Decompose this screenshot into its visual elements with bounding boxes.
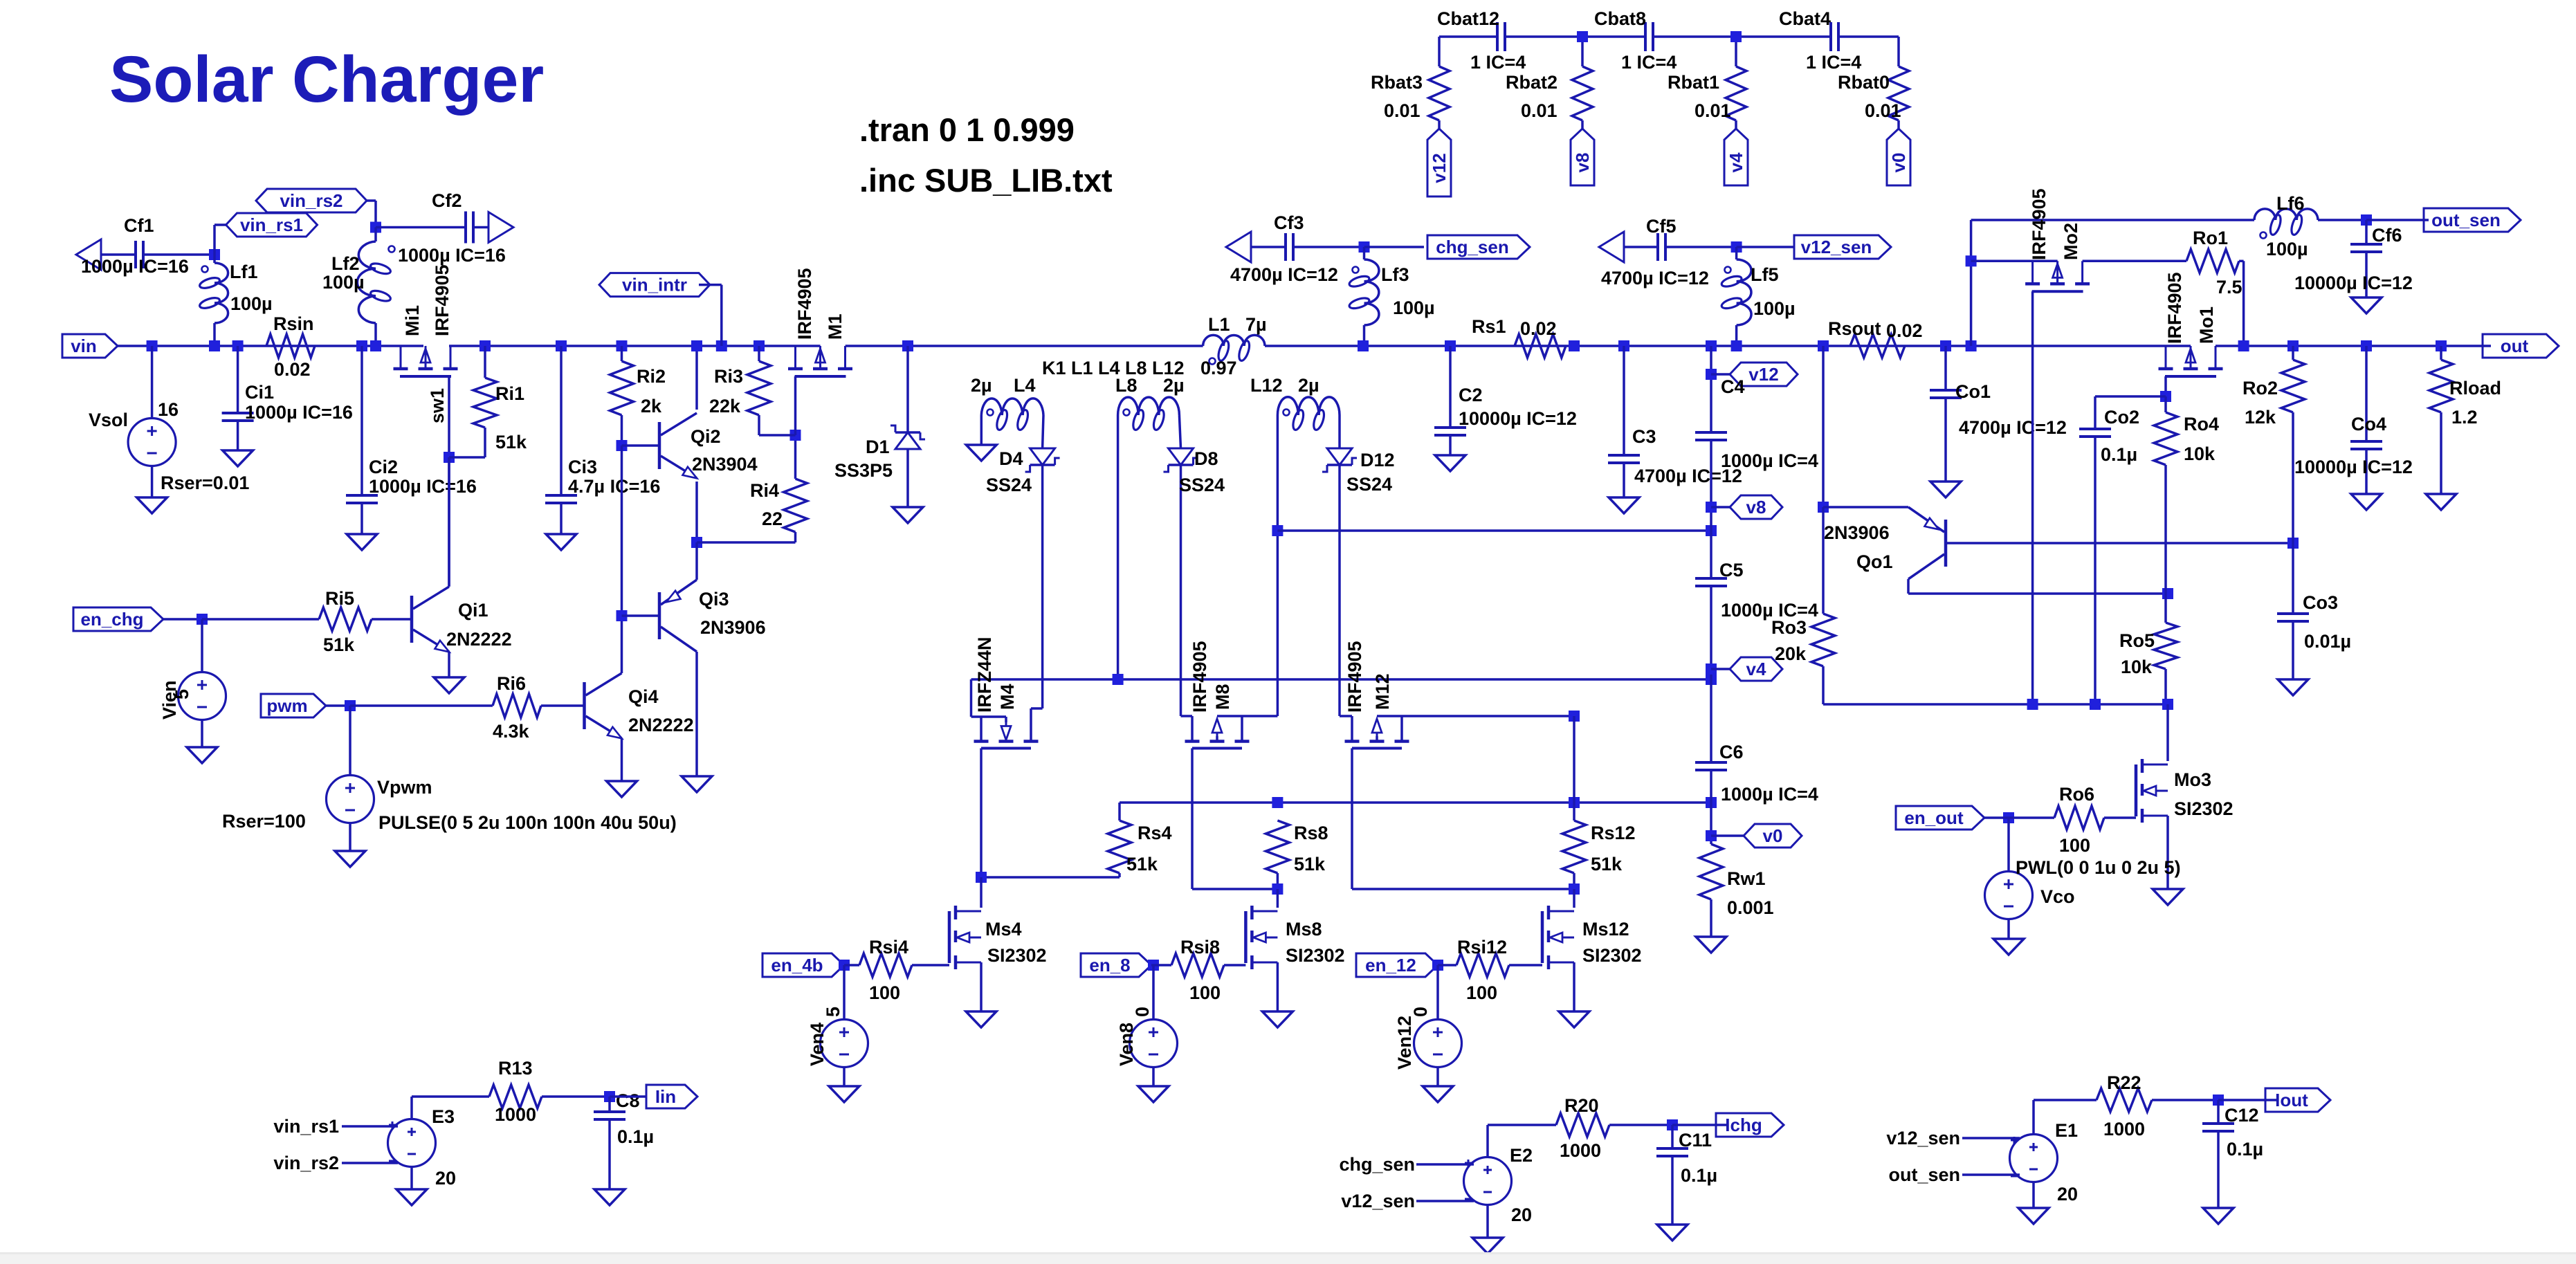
svg-text:Lf5: Lf5 xyxy=(1751,264,1779,285)
svg-text:C11: C11 xyxy=(1679,1130,1712,1151)
svg-text:Vco: Vco xyxy=(2040,886,2075,907)
svg-text:2k: 2k xyxy=(641,396,662,416)
svg-text:SI2302: SI2302 xyxy=(1582,945,1642,966)
svg-text:1000µ IC=16: 1000µ IC=16 xyxy=(81,256,189,277)
svg-text:7.5: 7.5 xyxy=(2216,277,2242,297)
svg-text:20: 20 xyxy=(2057,1184,2078,1205)
svg-text:2µ: 2µ xyxy=(1163,375,1185,396)
svg-text:.tran 0 1 0.999: .tran 0 1 0.999 xyxy=(859,111,1075,148)
svg-text:16: 16 xyxy=(158,399,179,420)
svg-text:Cf2: Cf2 xyxy=(432,190,462,211)
svg-text:PULSE(0 5 2u 100n 100n 40u 50u: PULSE(0 5 2u 100n 100n 40u 50u) xyxy=(378,812,677,833)
svg-text:v0: v0 xyxy=(1763,825,1783,846)
svg-text:v12_sen: v12_sen xyxy=(1801,237,1872,257)
svg-text:Cf1: Cf1 xyxy=(124,215,154,236)
svg-text:Rbat1: Rbat1 xyxy=(1668,72,1719,93)
svg-text:Rs12: Rs12 xyxy=(1591,823,1636,843)
svg-text:SI2302: SI2302 xyxy=(2174,798,2234,819)
svg-text:D1: D1 xyxy=(866,437,890,457)
svg-text:M4: M4 xyxy=(997,684,1018,710)
svg-text:Ro3: Ro3 xyxy=(1771,617,1807,638)
svg-text:Lf3: Lf3 xyxy=(1381,264,1409,285)
svg-text:C4: C4 xyxy=(1721,376,1745,397)
svg-text:v12_sen: v12_sen xyxy=(1886,1128,1960,1148)
svg-text:C5: C5 xyxy=(1719,560,1744,580)
svg-text:100: 100 xyxy=(869,982,900,1003)
svg-text:vin: vin xyxy=(71,336,97,356)
svg-text:2N3906: 2N3906 xyxy=(700,617,766,638)
svg-text:C8: C8 xyxy=(616,1090,640,1111)
svg-text:L8: L8 xyxy=(1115,375,1138,396)
svg-text:SS24: SS24 xyxy=(1346,474,1392,495)
svg-text:R20: R20 xyxy=(1564,1095,1599,1116)
svg-text:22: 22 xyxy=(762,509,783,529)
svg-text:chg_sen: chg_sen xyxy=(1339,1154,1415,1175)
svg-text:Ven8: Ven8 xyxy=(1116,1023,1137,1066)
svg-text:Ven12: Ven12 xyxy=(1394,1016,1415,1070)
svg-text:Ms8: Ms8 xyxy=(1286,919,1322,940)
svg-text:Ichg: Ichg xyxy=(1725,1115,1762,1135)
svg-text:0.02: 0.02 xyxy=(274,359,311,380)
svg-text:10000µ IC=12: 10000µ IC=12 xyxy=(1459,408,1577,429)
svg-text:7µ: 7µ xyxy=(1245,314,1267,335)
svg-text:51k: 51k xyxy=(323,634,355,655)
svg-text:Co3: Co3 xyxy=(2303,592,2338,613)
svg-text:out: out xyxy=(2501,336,2529,356)
svg-text:SS24: SS24 xyxy=(1179,475,1225,495)
svg-text:0: 0 xyxy=(1132,1007,1153,1017)
svg-text:SS3P5: SS3P5 xyxy=(834,460,893,481)
svg-text:E3: E3 xyxy=(432,1106,455,1127)
svg-text:v8: v8 xyxy=(1572,153,1593,173)
svg-text:vin_rs2: vin_rs2 xyxy=(280,190,342,211)
svg-text:vin_rs1: vin_rs1 xyxy=(240,214,303,235)
svg-text:D12: D12 xyxy=(1360,450,1395,470)
svg-text:Lf6: Lf6 xyxy=(2276,193,2305,214)
svg-text:SI2302: SI2302 xyxy=(1286,945,1345,966)
svg-text:0.02: 0.02 xyxy=(1520,318,1557,339)
svg-text:100µ: 100µ xyxy=(1393,297,1435,318)
svg-text:Rw1: Rw1 xyxy=(1727,868,1766,889)
svg-text:100: 100 xyxy=(2059,835,2090,856)
svg-text:v12: v12 xyxy=(1748,364,1778,385)
svg-text:20k: 20k xyxy=(1775,643,1807,664)
svg-text:C3: C3 xyxy=(1632,426,1656,447)
svg-text:M8: M8 xyxy=(1212,684,1233,710)
svg-text:51k: 51k xyxy=(1294,854,1326,874)
svg-text:L1: L1 xyxy=(1208,314,1230,335)
svg-text:100µ: 100µ xyxy=(1753,298,1796,319)
svg-text:Mi1: Mi1 xyxy=(402,305,423,336)
svg-text:Qi3: Qi3 xyxy=(699,589,729,610)
svg-text:M12: M12 xyxy=(1372,673,1393,710)
svg-text:Iin: Iin xyxy=(655,1086,676,1107)
svg-text:51k: 51k xyxy=(495,432,527,452)
svg-text:Ri2: Ri2 xyxy=(637,366,666,387)
svg-text:12k: 12k xyxy=(2245,407,2276,428)
svg-text:0.97: 0.97 xyxy=(1200,358,1237,378)
svg-text:1000µ IC=4: 1000µ IC=4 xyxy=(1721,450,1818,471)
svg-text:100µ: 100µ xyxy=(2266,239,2308,259)
svg-text:out_sen: out_sen xyxy=(1888,1164,1960,1185)
svg-text:1 IC=4: 1 IC=4 xyxy=(1806,52,1861,73)
svg-text:Ro5: Ro5 xyxy=(2119,630,2155,651)
svg-text:Ci1: Ci1 xyxy=(245,382,274,403)
svg-text:Vpwm: Vpwm xyxy=(377,777,432,798)
svg-text:Rs8: Rs8 xyxy=(1294,823,1328,843)
svg-text:Qo1: Qo1 xyxy=(1856,551,1893,572)
svg-text:Vsol: Vsol xyxy=(89,410,128,430)
svg-text:Iout: Iout xyxy=(2275,1090,2308,1110)
svg-text:v12: v12 xyxy=(1429,153,1450,183)
svg-text:Rsi12: Rsi12 xyxy=(1457,937,1507,958)
svg-text:Cbat4: Cbat4 xyxy=(1779,8,1831,29)
svg-text:Cf5: Cf5 xyxy=(1646,216,1677,237)
svg-text:IRF4905: IRF4905 xyxy=(2164,272,2185,344)
svg-text:Co1: Co1 xyxy=(1955,381,1991,402)
svg-text:Qi1: Qi1 xyxy=(458,600,488,621)
svg-text:Ri5: Ri5 xyxy=(325,588,354,609)
svg-text:en_12: en_12 xyxy=(1365,955,1416,976)
svg-text:.inc SUB_LIB.txt: .inc SUB_LIB.txt xyxy=(859,162,1113,199)
svg-text:Co2: Co2 xyxy=(2104,407,2139,428)
svg-text:E2: E2 xyxy=(1510,1145,1533,1166)
svg-text:1000: 1000 xyxy=(495,1104,536,1125)
svg-text:v8: v8 xyxy=(1746,497,1766,517)
svg-text:Co4: Co4 xyxy=(2351,414,2386,434)
svg-text:0.02: 0.02 xyxy=(1886,320,1923,341)
svg-text:M1: M1 xyxy=(825,313,846,340)
svg-text:R13: R13 xyxy=(498,1058,533,1079)
svg-text:51k: 51k xyxy=(1126,854,1158,874)
svg-text:Rbat3: Rbat3 xyxy=(1371,72,1423,93)
svg-text:0.01: 0.01 xyxy=(1865,100,1901,121)
svg-text:Cf6: Cf6 xyxy=(2372,225,2402,246)
svg-text:Mo3: Mo3 xyxy=(2174,769,2211,790)
svg-text:0.01: 0.01 xyxy=(1384,100,1421,121)
svg-text:Ci3: Ci3 xyxy=(568,457,597,477)
svg-text:1000µ IC=16: 1000µ IC=16 xyxy=(398,245,506,266)
svg-text:0.1µ: 0.1µ xyxy=(1681,1165,1717,1186)
svg-text:E1: E1 xyxy=(2055,1120,2078,1141)
svg-text:1000µ IC=16: 1000µ IC=16 xyxy=(369,476,477,497)
svg-text:5: 5 xyxy=(172,689,192,699)
svg-text:sw1: sw1 xyxy=(427,388,448,423)
svg-text:10k: 10k xyxy=(2184,443,2216,464)
svg-text:Rbat2: Rbat2 xyxy=(1506,72,1558,93)
svg-text:2N3906: 2N3906 xyxy=(1824,522,1890,543)
svg-text:IRF4905: IRF4905 xyxy=(794,268,815,340)
svg-text:4.7µ IC=16: 4.7µ IC=16 xyxy=(568,476,660,497)
svg-text:Mo2: Mo2 xyxy=(2061,223,2081,260)
svg-text:chg_sen: chg_sen xyxy=(1436,237,1509,257)
svg-text:1000µ IC=16: 1000µ IC=16 xyxy=(245,402,353,423)
svg-text:Ro4: Ro4 xyxy=(2184,414,2219,434)
svg-text:4.3k: 4.3k xyxy=(493,721,530,742)
svg-text:1000µ IC=4: 1000µ IC=4 xyxy=(1721,784,1818,805)
svg-text:51k: 51k xyxy=(1591,854,1623,874)
svg-text:Rbat0: Rbat0 xyxy=(1838,72,1890,93)
svg-text:Ri3: Ri3 xyxy=(714,366,743,387)
svg-text:Ci2: Ci2 xyxy=(369,457,398,477)
svg-text:Lf2: Lf2 xyxy=(331,253,360,274)
svg-text:20: 20 xyxy=(1511,1205,1532,1225)
svg-text:Mo1: Mo1 xyxy=(2196,306,2217,344)
svg-text:1.2: 1.2 xyxy=(2451,407,2478,428)
svg-text:vin_rs1: vin_rs1 xyxy=(273,1116,339,1137)
svg-text:Rsin: Rsin xyxy=(273,313,314,334)
svg-text:SI2302: SI2302 xyxy=(987,945,1047,966)
svg-text:Rsi4: Rsi4 xyxy=(869,937,908,958)
svg-text:10k: 10k xyxy=(2121,657,2153,677)
svg-text:Rs1: Rs1 xyxy=(1472,316,1506,337)
svg-text:Ro6: Ro6 xyxy=(2059,784,2094,805)
svg-text:Rs4: Rs4 xyxy=(1138,823,1172,843)
svg-text:Rsi8: Rsi8 xyxy=(1180,937,1220,958)
svg-text:20: 20 xyxy=(435,1168,456,1189)
svg-text:2N3904: 2N3904 xyxy=(692,454,758,475)
svg-text:PWL(0 0 1u 0 2u 5): PWL(0 0 1u 0 2u 5) xyxy=(2016,857,2181,878)
svg-text:Lf1: Lf1 xyxy=(230,262,258,282)
svg-text:100µ: 100µ xyxy=(322,272,365,293)
svg-text:C6: C6 xyxy=(1719,742,1744,762)
svg-text:4700µ IC=12: 4700µ IC=12 xyxy=(1601,268,1709,288)
svg-text:Rser=0.01: Rser=0.01 xyxy=(161,473,249,493)
svg-text:Rload: Rload xyxy=(2449,378,2501,399)
svg-text:v12_sen: v12_sen xyxy=(1341,1191,1415,1211)
svg-text:IRF4905: IRF4905 xyxy=(1189,641,1210,713)
svg-text:Rsout: Rsout xyxy=(1828,318,1881,339)
svg-text:4700µ IC=12: 4700µ IC=12 xyxy=(1959,417,2067,438)
svg-text:100: 100 xyxy=(1189,982,1221,1003)
svg-text:1000: 1000 xyxy=(1560,1140,1601,1161)
svg-text:0.1µ: 0.1µ xyxy=(617,1126,654,1147)
svg-text:1 IC=4: 1 IC=4 xyxy=(1621,52,1677,73)
svg-text:en_4b: en_4b xyxy=(771,955,823,976)
svg-text:C2: C2 xyxy=(1459,385,1483,405)
svg-text:Cbat8: Cbat8 xyxy=(1594,8,1646,29)
svg-text:100: 100 xyxy=(1466,982,1497,1003)
svg-text:10000µ IC=12: 10000µ IC=12 xyxy=(2294,273,2413,293)
svg-text:Ri1: Ri1 xyxy=(495,383,524,404)
svg-text:2µ: 2µ xyxy=(971,375,992,396)
svg-text:4700µ IC=12: 4700µ IC=12 xyxy=(1230,264,1338,285)
svg-text:D4: D4 xyxy=(999,448,1023,469)
svg-text:0.001: 0.001 xyxy=(1727,897,1774,918)
svg-text:2N2222: 2N2222 xyxy=(628,715,694,735)
svg-text:0.01: 0.01 xyxy=(1521,100,1558,121)
svg-text:R22: R22 xyxy=(2107,1072,2141,1093)
svg-text:C12: C12 xyxy=(2225,1105,2259,1126)
svg-text:v0: v0 xyxy=(1888,153,1909,173)
svg-text:IRF4905: IRF4905 xyxy=(432,264,453,336)
svg-text:Ms12: Ms12 xyxy=(1582,919,1629,940)
svg-text:IRF4905: IRF4905 xyxy=(2029,188,2049,260)
svg-text:Qi2: Qi2 xyxy=(691,426,721,447)
svg-text:22k: 22k xyxy=(709,396,741,416)
svg-text:Rser=100: Rser=100 xyxy=(222,811,306,832)
svg-text:0: 0 xyxy=(1410,1007,1431,1017)
svg-text:0.1µ: 0.1µ xyxy=(2101,444,2137,465)
svg-text:v4: v4 xyxy=(1746,659,1766,679)
svg-text:5: 5 xyxy=(823,1007,843,1017)
svg-text:Cbat12: Cbat12 xyxy=(1437,8,1499,29)
svg-text:Ro2: Ro2 xyxy=(2242,378,2278,399)
svg-text:2N2222: 2N2222 xyxy=(446,629,512,650)
svg-text:Ms4: Ms4 xyxy=(985,919,1022,940)
svg-text:IRF4905: IRF4905 xyxy=(1344,641,1365,713)
svg-text:Ro1: Ro1 xyxy=(2193,228,2228,248)
svg-text:0.01: 0.01 xyxy=(1695,100,1731,121)
svg-text:Ven4: Ven4 xyxy=(807,1023,828,1066)
svg-text:en_8: en_8 xyxy=(1089,955,1130,976)
svg-text:1 IC=4: 1 IC=4 xyxy=(1470,52,1526,73)
svg-text:Ri6: Ri6 xyxy=(497,673,526,694)
svg-text:L12: L12 xyxy=(1250,375,1283,396)
svg-text:0.01µ: 0.01µ xyxy=(2304,631,2351,652)
svg-text:vin_intr: vin_intr xyxy=(622,275,687,295)
svg-text:L4: L4 xyxy=(1014,375,1036,396)
svg-text:Solar Charger: Solar Charger xyxy=(109,43,544,116)
svg-text:10000µ IC=12: 10000µ IC=12 xyxy=(2294,457,2413,477)
svg-text:out_sen: out_sen xyxy=(2431,210,2501,230)
svg-text:pwm: pwm xyxy=(266,695,307,716)
svg-text:Qi4: Qi4 xyxy=(628,686,659,707)
svg-text:Ri4: Ri4 xyxy=(750,480,779,501)
svg-text:100µ: 100µ xyxy=(230,293,273,314)
svg-text:2µ: 2µ xyxy=(1298,375,1319,396)
svg-text:IRFZ44N: IRFZ44N xyxy=(974,636,995,713)
svg-text:en_out: en_out xyxy=(1904,807,1964,828)
svg-text:0.1µ: 0.1µ xyxy=(2227,1139,2263,1160)
svg-text:D8: D8 xyxy=(1194,448,1218,469)
svg-text:SS24: SS24 xyxy=(986,475,1032,495)
svg-text:vin_rs2: vin_rs2 xyxy=(273,1153,339,1173)
svg-text:v4: v4 xyxy=(1726,152,1746,172)
svg-text:en_chg: en_chg xyxy=(80,609,143,630)
svg-text:Cf3: Cf3 xyxy=(1274,212,1304,233)
svg-text:1000: 1000 xyxy=(2103,1119,2145,1139)
